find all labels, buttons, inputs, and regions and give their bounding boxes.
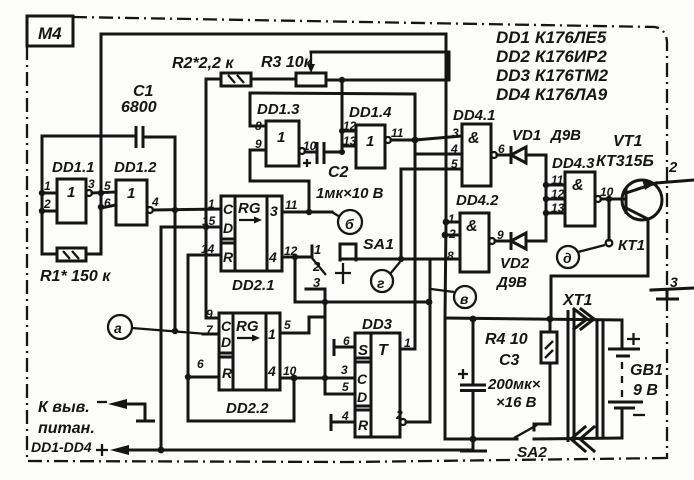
inverter DD1.2 [116,180,147,225]
GB1 cell1 plates [608,348,640,351]
svg-text:DD4.3: DD4.3 [552,155,595,172]
wire: right vertical x=445 down to DD4.2 pin1 [445,34,448,222]
wire: VT1 emitter down [626,208,648,276]
wire: DD1.2 out net down to a-circle leader / DD2.2 D [174,210,177,331]
GB1 center dashes [621,362,623,397]
wire: DD2.2 C input from clock net [206,317,219,320]
svg-text:13: 13 [343,134,357,148]
svg-text:1: 1 [448,212,455,226]
svg-text:DD2: DD2 [496,47,531,66]
wire: tone osc top wire DD1.3 pin8 to DD1.4 out [250,93,415,139]
svg-text:КТ315Б: КТ315Б [596,153,654,170]
DD2.1 section dividers [221,196,267,271]
GB1 cell2 plates [608,401,643,404]
svg-text:&: & [468,130,480,147]
svg-text:R1* 150 к: R1* 150 к [40,268,111,285]
svg-text:8: 8 [447,249,454,263]
wire: top rail from DD1.1 output to DD4.2 area [101,33,446,36]
svg-text:C: C [221,318,232,334]
svg-text:1: 1 [44,179,51,193]
svg-text:SA2: SA2 [517,444,548,461]
svg-text:в: в [460,291,469,307]
wire: DD2.2 out10 [280,377,325,380]
resistor R4 [549,319,552,332]
wire: DD4.3 input stubs [546,185,565,213]
svg-text:5: 5 [342,380,349,394]
terminal 3 ground top right [651,288,694,290]
wire: DD1.2 out4 to DD2.1 C [153,209,221,210]
svg-text:11: 11 [391,126,404,140]
svg-text:К176ЛЕ5: К176ЛЕ5 [535,28,607,47]
svg-text:11: 11 [285,198,298,212]
inversion circle DD4.2 out [489,238,495,244]
capacitor C3 [472,319,475,384]
svg-text:4: 4 [268,249,277,265]
wire: DD4.1 pin5 net [400,169,403,259]
wire: DD3 out2 [400,419,406,425]
SA1 contact 3 wire [306,289,325,394]
M4 box [27,16,73,46]
wire: out6 to VD1 [497,154,511,157]
connector XT1 [568,310,603,442]
svg-text:К176ИР2: К176ИР2 [535,47,607,66]
node junctions on diode bus [543,182,549,188]
plus lead [96,444,108,456]
wire: R net down to DD2.2 R [187,255,190,377]
node: pin2 [39,208,45,214]
gate DD4.3 [565,172,595,226]
wire: DD1.1 pin2 [42,210,57,213]
inverter DD1.3 [266,121,299,166]
svg-text:С1: С1 [133,83,154,100]
VT1 base bar [625,188,628,214]
svg-text:C: C [357,371,368,387]
label circle b [338,210,362,234]
svg-text:а: а [114,320,122,336]
svg-text:D: D [357,389,367,405]
wire: R loop under label to out10 [188,377,294,421]
svg-text:К176ЛА9: К176ЛА9 [535,85,608,104]
svg-text:RG: RG [236,318,259,335]
test point KT1 [608,199,611,240]
SA1 contact 1 [311,246,314,257]
svg-text:1мк×10 В: 1мк×10 В [316,185,384,202]
svg-text:DD4: DD4 [496,85,531,104]
wire: left vertical x=101 top rail down to output node [100,34,103,193]
wiper arrow of R3 [310,52,312,66]
transistor VT1 [622,180,662,220]
svg-text:КТ1: КТ1 [618,237,645,254]
register DD2.1 [221,196,282,271]
VT1 collector line [626,183,656,193]
svg-text:4: 4 [151,195,159,209]
label circle d [557,246,579,268]
svg-text:С3: С3 [499,352,520,369]
svg-text:D: D [223,220,233,236]
svg-text:R4 10: R4 10 [485,331,528,348]
svg-text:М4: М4 [38,24,62,43]
wire: DD1.1 inputs loop with C1 [42,136,134,254]
svg-text:DD1: DD1 [496,28,530,47]
wire: VD2 to DD4.3 [527,240,546,243]
svg-text:д: д [563,250,572,266]
svg-text:DD2.1: DD2.1 [232,277,275,294]
svg-text:×16 В: ×16 В [496,394,537,411]
svg-text:&: & [466,218,478,235]
wire: SA1 common to DD4.2 pin8 [340,258,460,261]
svg-text:C: C [223,201,234,217]
ground stub S pin [334,346,355,349]
wire: VD1 to DD4.3 inputs [527,155,546,241]
svg-text:R2*2,2 к: R2*2,2 к [172,55,234,72]
flip-flop DD3 [355,333,400,437]
wire: node to DD4.1 pin3 [415,136,462,140]
wire: DD2.1 out11 [282,211,332,214]
wire: common line y=302 [295,301,429,304]
node: DD1.1 out junction [98,190,104,196]
svg-text:VD1: VD1 [512,127,541,144]
svg-text:3: 3 [670,274,678,290]
capacitor C1 [136,126,143,148]
svg-text:2: 2 [312,259,321,274]
wire: GB1 minus down [621,409,624,438]
wire: node down pin4 and to DD3 out1 [400,140,415,349]
resistor R1 [57,248,86,261]
XT1 top chevrons [574,309,587,329]
svg-text:&: & [572,177,584,194]
svg-text:200мк×: 200мк× [487,376,541,393]
svg-text:VD2: VD2 [500,255,530,272]
wire: collector out 2 [656,180,694,183]
wire: D net down to + rail [160,227,163,450]
svg-text:T: T [378,342,389,359]
gate DD4.2 [460,213,489,272]
svg-text:DD4.2: DD4.2 [456,192,499,209]
wire: DD1.2 pin6 [101,205,116,208]
label circle a [108,315,132,339]
svg-text:DD1.1: DD1.1 [52,159,95,176]
wire: wiper tie to right end [311,52,449,80]
svg-text:1: 1 [208,197,215,211]
svg-text:ХТ1: ХТ1 [562,292,592,309]
svg-text:VT1: VT1 [613,133,642,150]
resistor R2 (select) [221,73,251,86]
inversion circle DD1.1 out [86,190,92,196]
wire: DD1.1 pin1 [42,192,57,195]
XT1 bottom chevrons [571,427,585,451]
svg-text:4: 4 [450,142,458,156]
wire: DD2.1 D input [161,226,221,229]
svg-text:3: 3 [270,203,278,219]
svg-text:1: 1 [268,326,276,342]
wire: DD2.2 R input [188,376,219,379]
DD3 section dividers [355,333,371,437]
wire: rail net down right side [445,222,446,439]
inversion circle DD4.3 out [595,196,601,202]
svg-text:DD1.3: DD1.3 [257,101,300,118]
svg-text:б: б [345,216,354,232]
node: pin1 [39,190,45,196]
svg-text:3: 3 [88,177,95,191]
svg-text:12: 12 [343,119,357,133]
wire: bottom block bottom [445,438,517,441]
wire: DD1.3 pin9 feedback [250,150,309,212]
wire: C1 right plate to DD1.2 output node [143,137,175,210]
label circle g [371,270,393,292]
svg-text:питан.: питан. [38,420,95,437]
wire: DD4.3 out to VT1 base [601,198,625,201]
svg-text:DD2.2: DD2.2 [226,400,269,417]
svg-text:1: 1 [277,129,285,146]
resistor R3 potentiometer [296,73,326,86]
battery GB1 [621,320,624,349]
capacitor C2 polar [305,151,317,154]
diode VD2 [511,233,526,249]
wire: plus supply rail [128,449,473,452]
ground stub R pin [331,421,355,424]
wire: VT1 emitter to rail [551,276,648,319]
SA1 cross mark [335,263,351,284]
svg-text:С2: С2 [328,164,349,181]
svg-text:К выв.: К выв. [38,399,90,416]
svg-text:S: S [358,342,368,359]
svg-text:R: R [358,417,369,433]
svg-text:5: 5 [451,157,458,171]
svg-text:3: 3 [452,126,459,140]
svg-text:К176ТМ2: К176ТМ2 [535,66,609,85]
svg-text:SA1: SA1 [363,236,394,253]
wire: DD2.1 out12 [282,256,311,259]
svg-text:1: 1 [127,185,135,202]
wire: DD3 C and D inputs [325,377,355,380]
inversion circle DD4.1 out [491,152,497,158]
SA1 arm [312,258,326,275]
wire: out12 net down to common line [294,257,297,302]
svg-text:4: 4 [267,363,276,379]
wire: x=101 down to R1 [86,193,101,254]
svg-text:1: 1 [314,242,321,257]
label circle v [454,286,476,308]
svg-text:6: 6 [104,196,111,210]
wire: DD3 out1 [400,348,415,351]
svg-text:R: R [223,249,234,265]
wire: C3 bottom [472,392,475,439]
inverter DD1.4 [356,125,385,168]
VT1 arrow [642,179,655,190]
GB1 plus sign [627,333,640,345]
gate DD4.1 [462,124,491,186]
wire: DD4.2 pin1 pin2 from top net [446,221,460,224]
svg-text:R: R [222,365,233,381]
svg-text:6: 6 [197,357,204,371]
wire: DD2.2 out5 [280,317,325,333]
minus lead [97,401,107,403]
svg-text:R3 10к: R3 10к [261,54,313,71]
svg-text:D: D [221,334,231,350]
svg-text:3: 3 [341,363,348,377]
svg-text:1: 1 [366,133,374,150]
svg-text:DD4.1: DD4.1 [453,107,496,124]
register DD2.2 [219,313,280,390]
svg-text:5: 5 [284,318,291,332]
wire: DD2.1 R input from x188 net [188,254,221,257]
SA1 common bracket [340,244,356,260]
wire: supply rail y=319 [445,318,622,320]
svg-text:г: г [377,275,385,291]
svg-text:6800: 6800 [121,99,157,116]
wire: DD4.2 out9 to VD2 [495,240,511,243]
svg-text:DD1-DD4: DD1-DD4 [31,439,92,455]
svg-text:9 В: 9 В [633,382,658,399]
svg-text:1: 1 [67,184,75,201]
svg-text:DD3: DD3 [362,316,393,333]
svg-text:RG: RG [238,200,261,217]
svg-text:GB1: GB1 [630,362,663,379]
inversion circle DD1.4 out [385,137,391,143]
svg-text:2: 2 [668,159,678,176]
wire: C2 right to DD1.4 inputs [324,151,342,154]
wire: DD2.2 pin7 D [203,333,219,336]
ground under C3 [472,439,475,449]
wire: R2 left down to clock net [206,79,221,318]
svg-text:DD3: DD3 [496,66,531,85]
diode VD1 [511,147,526,163]
GB1 minus sign [633,414,645,416]
inverter DD1.1 [57,179,86,223]
wire: R3 right to DD1.4 input node [326,79,449,82]
svg-text:Д9В: Д9В [549,127,581,144]
svg-text:2: 2 [43,197,51,211]
C3 plus sign [458,369,468,379]
svg-text:Д9В: Д9В [495,274,527,291]
inversion circle DD1.2 out [147,207,153,213]
wire: out3 to pin5 [92,192,116,193]
svg-text:5: 5 [104,179,111,193]
wire: R2 right to R3 left [251,78,296,81]
wire: branch down to DD3 out2 [406,259,430,422]
svg-text:DD1.2: DD1.2 [114,159,157,176]
switch SA2 [514,425,537,438]
wire: DD1.4 out to node [391,139,415,142]
wire: down to DD1.4 inputs and C2 [341,80,344,152]
DD2.2 section dividers [219,313,266,390]
